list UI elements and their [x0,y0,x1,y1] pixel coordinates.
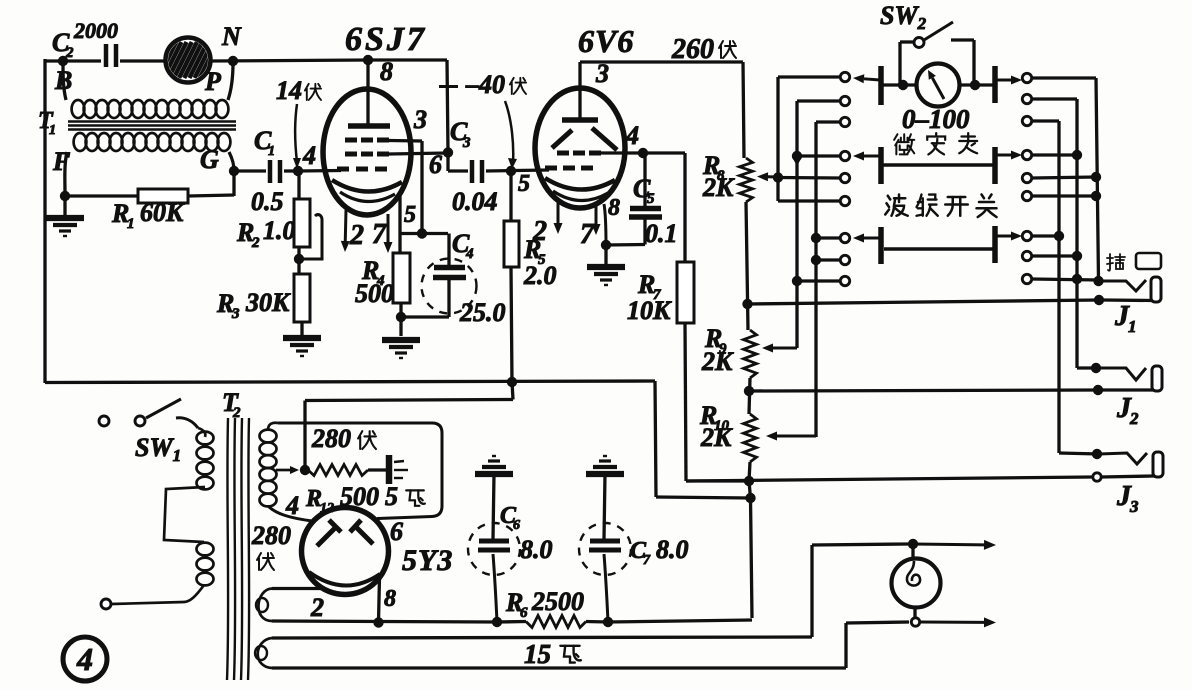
pin 2 arrow [344,210,348,241]
svg-text:8: 8 [384,586,396,612]
node J1 line tap [742,299,752,309]
svg-text:2: 2 [232,405,241,421]
node 6SJ7 plate top [363,55,373,65]
left bus 2 [795,101,798,346]
svg-text:5: 5 [385,482,398,511]
svg-text:6: 6 [520,605,528,621]
node J2 line tap [744,386,754,396]
jack J1 [1093,276,1103,286]
svg-text:500: 500 [355,279,394,308]
open node lamp bottom [911,618,919,626]
resistor R9 2K (pot) [744,330,757,378]
wire 6V6 plate to 260V [580,60,743,63]
node F / ground junction [60,191,70,201]
branch rail to T2 center tap [512,382,513,400]
long line R7/R10 to J3 [686,477,1092,481]
svg-text:4: 4 [625,121,639,150]
left contact circles [840,72,849,81]
resistor R10 2K (pot) [744,414,757,462]
svg-text:5: 5 [518,171,530,197]
capacitor C1 0.5 [268,160,273,183]
svg-text:2.0: 2.0 [523,261,557,290]
wire R9 to R10 [749,378,750,414]
wire left edge vertical [43,59,46,383]
node pin4 [638,148,648,158]
pin 7 arrow [387,214,390,242]
resistor R12 500 5W [308,465,368,476]
resistor R2 1.0 [294,199,310,247]
R10 wiper arrow [777,435,816,438]
svg-text:1: 1 [268,144,275,159]
wire box to 5Y3 pin6 [278,423,442,519]
resistor R4 500 [393,253,410,303]
pin 7 arrow [595,205,598,224]
ground under R4 [382,337,420,343]
ground under R3 [300,322,303,336]
R9 wiper arrow [773,347,797,350]
svg-text:1: 1 [127,216,135,232]
heater winding loop 1 [258,589,272,622]
svg-text:0–100: 0–100 [902,104,970,134]
svg-text:4: 4 [465,246,474,262]
bottom rail of upper block [45,381,655,383]
svg-text:4: 4 [285,491,299,520]
heater line bottom long [272,666,846,669]
T2 primary top coil [198,428,205,437]
left contact wires [778,75,840,78]
lamp N (neon bulb) [166,38,211,83]
heater line arrow bottom [920,621,984,624]
svg-text:280: 280 [251,521,291,550]
svg-text:260: 260 [671,34,714,65]
right bus 3 (to J3) [1057,121,1060,453]
pilot lamp [892,559,941,608]
resistor R6 2500 [526,616,586,628]
svg-text:25.0: 25.0 [459,298,506,327]
switch SW2 [898,42,901,84]
rail corner down to lower net [655,381,656,497]
svg-text:2: 2 [532,216,547,247]
figure number 4 [63,637,107,681]
node C7 bottom [603,617,613,627]
B- line with R6 [272,621,497,622]
svg-text:60K: 60K [140,198,185,227]
wire 6SJ7 top to C3 corner [368,58,447,61]
T2 primary jog [164,487,205,542]
wire top-left rail [45,59,101,62]
heater line arrow top [913,543,984,547]
svg-text:G: G [200,145,219,174]
svg-text:6: 6 [429,150,442,179]
6SJ7 cathode arcs [332,180,402,192]
tick mark [439,85,458,88]
pin 6 wire to C3 node [389,153,448,154]
wire G to C1 [234,169,266,172]
tube 5Y3 [302,508,389,595]
pin 3 wire [389,139,422,143]
node 4 (6SJ7 grid) [293,166,303,176]
svg-text:15: 15 [524,639,551,669]
right bus 2 (to J2) [1075,99,1078,368]
meter 0-100 [917,64,960,107]
capacitor C3 0.04 [448,169,468,172]
resistor R7 10K [677,262,694,323]
svg-text:2: 2 [251,235,260,251]
svg-text:30K: 30K [245,288,291,317]
svg-text:6V6: 6V6 [578,23,634,59]
resistor R3 30K [294,274,310,322]
svg-text:4: 4 [302,141,316,170]
svg-text:6SJ7: 6SJ7 [345,21,427,58]
left wiper arrows [864,79,880,80]
long line R8 tap to J1 [748,300,1100,304]
ground under 6V6 cathode [604,245,607,264]
label 波段开关 [885,195,908,216]
capacitor C7 8.0 [586,471,624,477]
right wiper T-bars [992,66,998,103]
T2 primary bottom coil [197,543,214,556]
svg-text:3: 3 [413,105,427,134]
svg-text:–40: –40 [465,70,505,99]
svg-text:1: 1 [49,123,56,138]
wire 260V down to R8 [743,62,744,158]
ground under T1 [63,196,66,215]
right bus junction dots [1072,150,1082,160]
svg-text:7: 7 [372,219,387,250]
wire F to R1 [65,194,138,197]
svg-text:5: 5 [647,191,655,207]
left wiper T-bars [878,66,884,105]
T2 HV secondary coil [268,423,278,430]
svg-text:8: 8 [608,195,620,221]
HV center tap with arrow [276,469,290,472]
svg-text:7: 7 [580,219,595,250]
6V6 cathode arcs [545,178,615,190]
stub hook right of R2 [299,215,322,259]
R8 wiper arrow [768,175,778,178]
node center tap [300,465,310,475]
svg-text:7: 7 [643,553,651,568]
right contact wires [1032,76,1096,79]
bus2 small down arrow [792,157,802,166]
node N [228,56,238,66]
wire pin4 to R7 [643,151,685,154]
wiper link bars [881,163,995,167]
5Y3 left plate [317,527,336,546]
right contact circles [1022,73,1031,82]
5Y3 pin 2 wire [272,587,323,590]
svg-text:14: 14 [276,76,302,105]
svg-text:3: 3 [231,306,240,322]
svg-text:1: 1 [1128,317,1137,336]
left bus 3 [814,122,817,437]
svg-text:2500: 2500 [531,587,584,616]
pin 8 cathode wire [604,204,606,245]
svg-text:0.5: 0.5 [251,187,284,216]
svg-text:0.1: 0.1 [645,219,678,248]
right wiper arrows [996,79,1011,82]
svg-text:3: 3 [462,135,471,151]
svg-text:N: N [221,22,242,51]
wire N to 6SJ7 top [211,60,368,61]
node C3/pin6 [443,147,453,157]
svg-text:5: 5 [404,202,416,228]
meter feed left [883,83,918,86]
left bus junction dots [792,151,802,161]
beam plates [552,130,572,148]
capacitor C2 [104,44,109,67]
node pin8/C5/ground [601,240,611,250]
svg-text:F: F [52,147,70,176]
label 插口 [1107,254,1125,271]
svg-text:2K: 2K [700,423,733,452]
node pin3/C4 tee [400,232,448,235]
pin 4 screen wire [592,151,643,154]
node lamp top [908,539,918,549]
pin 2 arrow [557,202,560,223]
pin 5 wire down to R4 [398,196,401,253]
5Y3 filament arc [309,572,380,586]
jack J2 [1100,368,1146,380]
svg-text:B: B [54,66,72,95]
svg-text:5Y3: 5Y3 [402,544,453,577]
right bus 1 (to J1) [1096,78,1099,281]
svg-text:0.04: 0.04 [452,187,498,216]
capacitor C5 0.1 [643,153,646,207]
jack J3 [1099,453,1147,464]
long line R9 tap to J2 [749,390,1098,391]
svg-text:3: 3 [1129,497,1139,516]
resistor R8 2K (pot) [740,158,753,202]
svg-text:2000: 2000 [73,18,118,43]
node J3 line tap [749,462,750,481]
R12 chassis bar [386,455,393,484]
svg-text:2K: 2K [702,173,735,202]
node: junction left of C2 [58,56,68,66]
HV winding bottom to 5Y3 pin4 [268,506,312,521]
node C3 right / 6V6 grid [506,166,516,176]
svg-text:2: 2 [1129,409,1139,428]
capacitor C6 8.0 [475,471,513,477]
wire node4 down to R2 [297,171,300,199]
node G [229,166,239,176]
node lower tap [749,481,751,498]
svg-text:6: 6 [513,518,520,533]
wire R5 to bottom rail [511,267,512,383]
node R4 bottom [399,303,402,336]
svg-text:2: 2 [310,593,324,622]
5Y3 pin 8 wire [379,577,380,622]
heater line to pilot lamp top [272,637,812,638]
svg-text:P: P [204,67,222,96]
svg-text:2: 2 [349,220,364,251]
resistor R5 2.0 [509,171,512,221]
capacitor C4 25.0 electrolytic [447,234,450,267]
node C6 bottom [492,617,502,627]
heater winding loop 2 [258,638,272,668]
5Y3 right plate [355,526,373,544]
wire R8 to R9 [746,202,748,330]
svg-text:2K: 2K [701,347,734,376]
svg-text:8.0: 8.0 [520,535,553,564]
left bus 1 [776,77,779,201]
node R2/R3 junction [297,247,300,274]
switch SW1 [99,416,109,426]
svg-text:10K: 10K [627,296,672,325]
svg-text:4: 4 [76,641,93,677]
wire R7 bottom to J3 line [685,323,686,481]
svg-text:280: 280 [311,424,351,453]
svg-text:8.0: 8.0 [656,535,689,564]
resistor R1 60K [138,189,188,203]
label 微安表 [894,134,914,154]
svg-text:6: 6 [390,517,403,546]
svg-text:1.0: 1.0 [263,216,296,245]
